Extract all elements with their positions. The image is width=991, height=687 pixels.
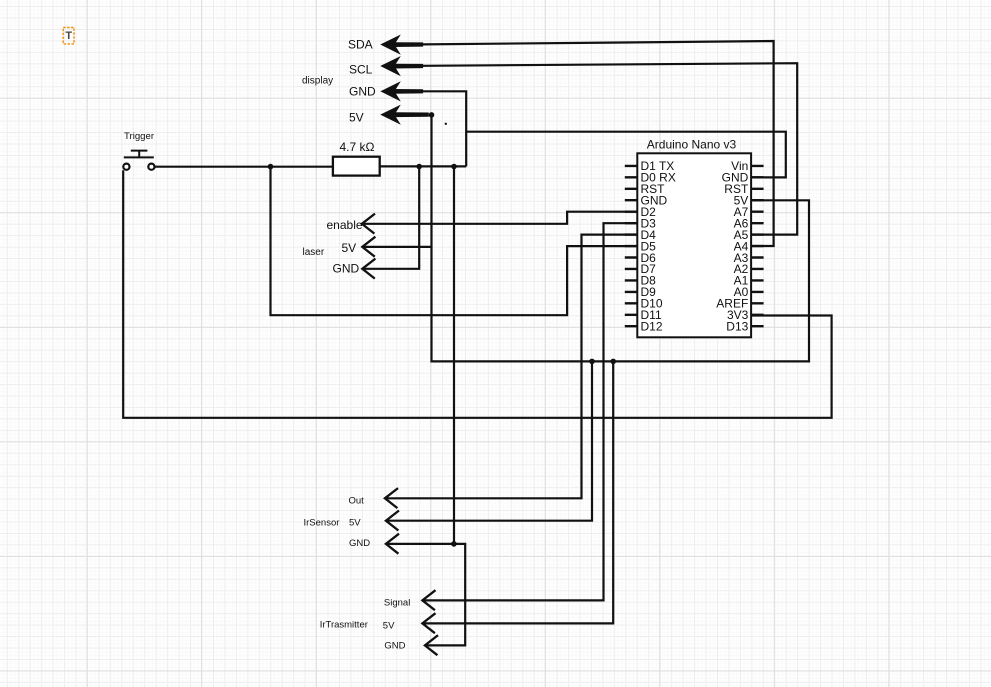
svg-text:D12: D12	[641, 320, 663, 334]
svg-text:GND: GND	[349, 85, 376, 99]
svg-text:Arduino Nano v3: Arduino Nano v3	[647, 137, 737, 151]
svg-text:D13: D13	[726, 320, 748, 334]
svg-text:Out: Out	[349, 495, 365, 506]
svg-text:SDA: SDA	[348, 38, 373, 52]
svg-text:GND: GND	[333, 262, 360, 276]
svg-text:5V: 5V	[349, 111, 364, 125]
svg-text:5V: 5V	[342, 241, 357, 255]
svg-text:display: display	[302, 76, 333, 87]
svg-text:T: T	[65, 30, 72, 42]
svg-text:4.7 kΩ: 4.7 kΩ	[340, 140, 375, 154]
svg-text:5V: 5V	[349, 517, 361, 528]
svg-text:IrTrasmitter: IrTrasmitter	[320, 620, 368, 631]
svg-text:GND: GND	[384, 640, 405, 651]
svg-text:SCL: SCL	[349, 63, 373, 77]
svg-text:enable: enable	[327, 218, 363, 232]
svg-text:GND: GND	[349, 538, 370, 549]
svg-text:Signal: Signal	[384, 598, 410, 609]
svg-text:5V: 5V	[383, 620, 395, 631]
svg-text:IrSensor: IrSensor	[304, 517, 340, 528]
svg-text:Trigger: Trigger	[124, 131, 155, 142]
svg-text:laser: laser	[303, 247, 325, 258]
